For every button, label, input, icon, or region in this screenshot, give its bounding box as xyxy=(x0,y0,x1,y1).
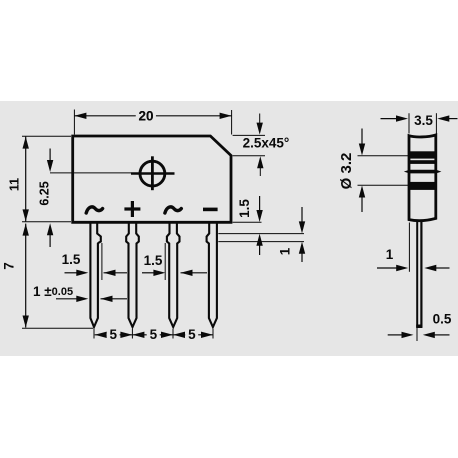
svg-text:1.5: 1.5 xyxy=(144,253,163,268)
svg-text:6.25: 6.25 xyxy=(37,181,51,205)
svg-text:0.5: 0.5 xyxy=(433,312,452,327)
svg-text:3.5: 3.5 xyxy=(414,113,433,128)
svg-text:20: 20 xyxy=(138,109,153,124)
svg-text:2.5x45°: 2.5x45° xyxy=(243,136,290,151)
svg-text:5: 5 xyxy=(109,327,117,342)
svg-text:5: 5 xyxy=(188,327,196,342)
svg-text:11: 11 xyxy=(8,178,22,191)
svg-text:Ø 3.2: Ø 3.2 xyxy=(338,153,355,190)
svg-text:7: 7 xyxy=(1,262,16,270)
svg-text:5: 5 xyxy=(150,327,158,342)
svg-text:1 ±0.05: 1 ±0.05 xyxy=(33,284,73,299)
svg-text:1.5: 1.5 xyxy=(62,252,81,267)
svg-text:1: 1 xyxy=(278,247,293,255)
svg-text:1.5: 1.5 xyxy=(237,199,252,218)
svg-text:1: 1 xyxy=(386,247,394,262)
